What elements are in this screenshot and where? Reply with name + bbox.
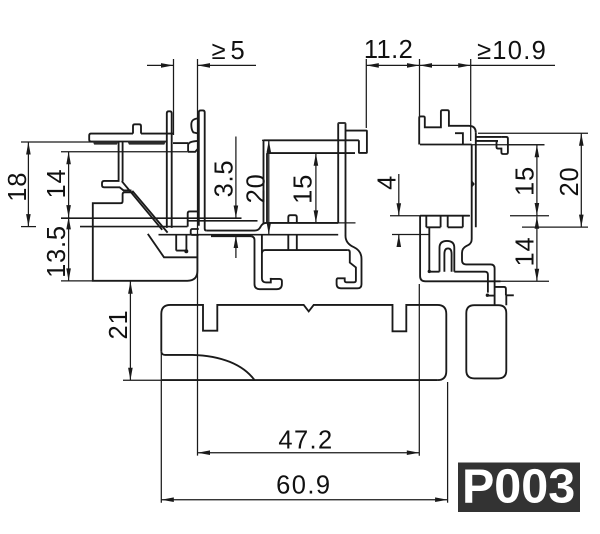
dimension 11.2: [366, 64, 419, 66]
dimension 20 center: [268, 140, 270, 234]
right profile bottom flange: [420, 215, 470, 217]
right profile foot: [420, 216, 500, 282]
snap dome: [440, 241, 455, 272]
cross arm and post: [159, 234, 339, 236]
diagonal struts: [122, 181, 162, 230]
svg-text:21: 21: [105, 310, 133, 340]
dimension 60.9: [161, 499, 447, 501]
left clamp top flange: [89, 134, 173, 142]
dimension 18: [27, 142, 29, 227]
gasket bars: [93, 141, 119, 144]
svg-text:≥10.9: ≥10.9: [477, 37, 547, 65]
svg-text:15: 15: [511, 166, 539, 196]
center profile left foot: [251, 235, 282, 289]
horizontal web lines: [61, 217, 242, 219]
dimension 47.2: [198, 452, 420, 454]
dimension &ge;10.9: [420, 64, 556, 66]
P003 label: [458, 463, 580, 513]
svg-text:15: 15: [290, 174, 318, 204]
upper center piece: [199, 110, 207, 230]
svg-text:47.2: 47.2: [278, 426, 333, 454]
center profile bottom flange: [207, 223, 339, 231]
svg-text:P003: P003: [462, 460, 575, 514]
svg-text:60.9: 60.9: [276, 472, 331, 500]
dimension 15 right: [536, 145, 538, 216]
right S-curve: [462, 145, 495, 306]
svg-text:20: 20: [556, 167, 584, 197]
dimension 14 left: [68, 152, 70, 218]
svg-text:4: 4: [373, 175, 401, 190]
center profile right foot: [262, 250, 348, 253]
right block: [466, 305, 506, 378]
svg-text:14: 14: [43, 169, 71, 199]
dimension 13.5: [68, 217, 70, 281]
svg-text:14: 14: [511, 237, 539, 267]
T stem with foot: [102, 142, 132, 191]
svg-text:13.5: 13.5: [43, 225, 71, 278]
center profile middle stem: [288, 215, 297, 250]
dimension 21: [129, 281, 131, 380]
center profile upper: [264, 139, 359, 141]
svg-text:3.5: 3.5: [210, 160, 238, 198]
left clamp right wall: [167, 111, 172, 228]
left clamp body box: [93, 192, 198, 280]
dimension 4: [398, 174, 400, 216]
right profile upper arm: [476, 137, 502, 141]
dimension &ge;5: [147, 64, 174, 66]
dimension 20 right: [580, 133, 582, 227]
right lower arm: [495, 287, 514, 305]
base profile: [161, 305, 446, 380]
svg-text:≥5: ≥5: [212, 37, 250, 65]
dimension 14 right: [536, 216, 538, 281]
dimension 3.5: [235, 137, 237, 219]
right profile top claw: [419, 110, 476, 144]
dimension 15 center: [315, 153, 317, 223]
right profile wall: [475, 133, 477, 228]
svg-text:18: 18: [4, 172, 32, 202]
svg-text:11.2: 11.2: [364, 36, 413, 64]
